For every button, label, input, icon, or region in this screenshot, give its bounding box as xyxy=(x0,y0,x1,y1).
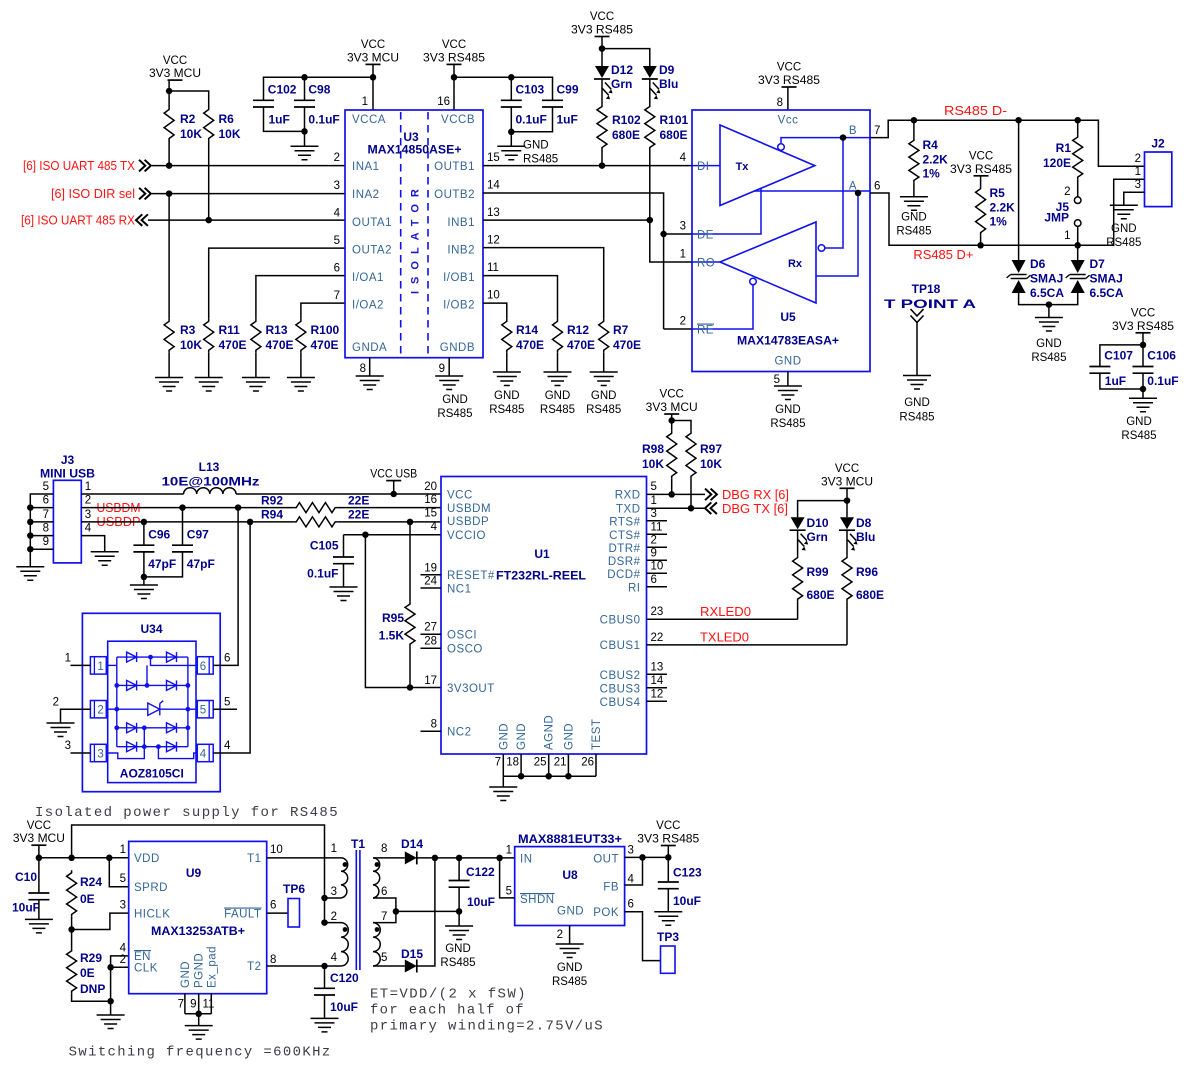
svg-text:VCCIO: VCCIO xyxy=(447,530,486,542)
junction SHDN rail xyxy=(496,855,503,862)
wire J3 shield pin xyxy=(30,548,53,550)
power symbol VCC 3V3 RS485 (U5 pin8) xyxy=(758,62,820,87)
svg-text:VCCB: VCCB xyxy=(441,114,475,126)
wire to D10 xyxy=(798,501,847,518)
svg-text:DNP: DNP xyxy=(80,982,105,996)
diode U34 A1 xyxy=(127,652,137,662)
U34 pin1 inner line xyxy=(106,664,117,666)
wire R13 to gnd xyxy=(255,353,257,378)
svg-text:GND: GND xyxy=(557,906,584,918)
svg-text:CBUS0: CBUS0 xyxy=(600,615,641,627)
junction VCCIO-3V3 tie xyxy=(362,531,369,538)
wire B to D- rail xyxy=(870,120,1145,166)
svg-text:AOZ8105CI: AOZ8105CI xyxy=(120,767,184,781)
svg-text:HICLK: HICLK xyxy=(134,909,170,921)
ground RS485 under TP18 xyxy=(903,376,931,390)
svg-text:Switching frequency =600KHz: Switching frequency =600KHz xyxy=(69,1045,332,1061)
svg-text:GNDA: GNDA xyxy=(352,342,387,354)
svg-text:3V3OUT: 3V3OUT xyxy=(447,683,495,695)
svg-text:ISOLATOR: ISOLATOR xyxy=(410,182,422,294)
wire R4 top xyxy=(913,120,915,138)
svg-text:8: 8 xyxy=(270,954,276,966)
svg-text:R94: R94 xyxy=(261,508,283,522)
diode D15 xyxy=(405,960,417,973)
wire USBDM to R92 xyxy=(81,507,293,509)
svg-text:I/OB1: I/OB1 xyxy=(443,272,475,284)
junction R98-RXD xyxy=(668,491,675,498)
svg-text:0.1uF: 0.1uF xyxy=(516,112,547,126)
svg-text:U9: U9 xyxy=(186,866,202,880)
svg-text:9: 9 xyxy=(43,536,49,548)
junction C106 gnd xyxy=(1140,386,1147,393)
svg-text:8: 8 xyxy=(777,97,783,109)
svg-text:VCC: VCC xyxy=(660,389,684,401)
capacitor C98 xyxy=(294,100,315,107)
wire SPRD jog xyxy=(109,858,128,887)
svg-text:27: 27 xyxy=(424,621,437,633)
wire GNDB to gnd xyxy=(448,358,450,376)
power symbol VCC 3V3 RS485 (U3 pin16) xyxy=(423,39,485,64)
wire CBUS1 net xyxy=(647,644,848,646)
svg-text:CLK: CLK xyxy=(134,963,158,975)
chevron DBG TX xyxy=(705,502,717,514)
ic U9 MAX13253ATB+ box xyxy=(129,841,267,993)
junction R101-INB1-RO xyxy=(647,217,654,224)
svg-text:RE: RE xyxy=(697,325,714,337)
wire R6 bottom to OUTA1 xyxy=(208,141,210,220)
op-amp U5 Rx receiver triangle xyxy=(720,222,816,303)
svg-text:10uF: 10uF xyxy=(467,895,495,909)
svg-text:R11: R11 xyxy=(219,323,241,337)
svg-text:RS485: RS485 xyxy=(586,404,621,416)
resistor R94 xyxy=(294,517,338,527)
wire C122 bottom xyxy=(458,887,460,926)
svg-text:12: 12 xyxy=(651,689,664,701)
svg-text:for each half of: for each half of xyxy=(370,1003,525,1019)
svg-text:7: 7 xyxy=(495,757,501,769)
wire R92 to USBDM pin xyxy=(338,507,441,509)
U34 zener row line xyxy=(117,708,188,710)
ground under C105 xyxy=(330,587,358,601)
svg-text:C103: C103 xyxy=(516,83,545,97)
svg-text:A: A xyxy=(849,181,857,193)
svg-text:1: 1 xyxy=(680,249,686,261)
svg-text:INA1: INA1 xyxy=(352,161,380,173)
node U34 zener left xyxy=(114,707,119,712)
zener diode U34 xyxy=(148,701,164,716)
svg-text:3V3 MCU: 3V3 MCU xyxy=(646,402,698,414)
U34 row B line xyxy=(117,684,188,686)
svg-text:primary winding=2.75V/uS: primary winding=2.75V/uS xyxy=(370,1019,604,1035)
junction R2-INA1 xyxy=(166,162,173,169)
wire xfmr pin2 lead xyxy=(325,922,342,924)
wire I/OA2 net xyxy=(301,303,345,319)
power symbol VCC 3V3 RS485 (LEDs) xyxy=(571,11,633,36)
wire R4 gnd xyxy=(913,183,915,197)
svg-text:1uF: 1uF xyxy=(557,112,578,126)
svg-text:22E: 22E xyxy=(348,493,369,507)
svg-text:4: 4 xyxy=(224,740,231,752)
svg-text:13: 13 xyxy=(487,207,500,219)
junction C97 tap xyxy=(179,504,186,511)
junction R3-INA2 xyxy=(166,190,173,197)
wire U9 gnd drop xyxy=(198,1014,200,1026)
wire R97 to TXD xyxy=(690,479,692,509)
svg-text:10: 10 xyxy=(487,290,500,302)
wire J3 shield bus xyxy=(30,494,53,567)
svg-text:6: 6 xyxy=(200,661,206,673)
svg-text:RS485: RS485 xyxy=(440,957,475,969)
svg-text:C10: C10 xyxy=(15,870,37,884)
wire OUTA1 net xyxy=(148,219,345,221)
wire U1 nc stub xyxy=(421,633,442,635)
junction R1 on D- xyxy=(1074,117,1081,124)
svg-text:L13: L13 xyxy=(199,460,220,474)
svg-text:OUTA1: OUTA1 xyxy=(352,217,392,229)
svg-text:470E: 470E xyxy=(567,338,595,352)
svg-text:20: 20 xyxy=(424,481,437,493)
junction D15 rail xyxy=(432,855,439,862)
wire C102 bottom xyxy=(264,107,305,131)
svg-text:R14: R14 xyxy=(516,323,538,337)
svg-text:1: 1 xyxy=(85,481,91,493)
wire to R97 top xyxy=(672,421,691,431)
wire INA2 net xyxy=(152,193,345,195)
wire R96 to CBUS1 xyxy=(846,602,848,645)
transformer T1 core xyxy=(356,850,360,970)
wire INA2 to R3 xyxy=(168,194,170,319)
svg-text:10K: 10K xyxy=(180,338,202,352)
svg-text:GND: GND xyxy=(775,404,801,416)
svg-text:2.2K: 2.2K xyxy=(990,201,1016,215)
junction C123 tap xyxy=(665,854,672,861)
U5 Rx input bubble xyxy=(818,245,825,252)
capacitor C102 xyxy=(253,100,274,107)
resistor R24 xyxy=(67,870,77,917)
resistor R12 xyxy=(553,319,563,353)
junction J3 shield xyxy=(27,519,34,526)
svg-text:0E: 0E xyxy=(80,892,95,906)
junction xfmr pin3 tap xyxy=(321,895,328,902)
svg-text:R29: R29 xyxy=(80,951,102,965)
diode U34 C1 xyxy=(127,723,137,733)
svg-text:TEST: TEST xyxy=(591,719,603,750)
wire U1 gnd stub xyxy=(548,754,550,776)
svg-text:R1: R1 xyxy=(1056,141,1072,155)
svg-text:2: 2 xyxy=(85,495,91,507)
resistor R98 xyxy=(667,431,677,479)
resistor R11 xyxy=(204,319,214,353)
svg-text:R4: R4 xyxy=(923,138,939,152)
svg-text:470E: 470E xyxy=(266,338,294,352)
svg-text:VCC USB: VCC USB xyxy=(370,469,417,481)
svg-text:11: 11 xyxy=(203,999,215,1011)
ic U5 MAX14783EASA+ box xyxy=(692,110,870,372)
connector J2 box xyxy=(1145,152,1172,207)
svg-text:10K: 10K xyxy=(219,127,241,141)
U34 row C line xyxy=(117,727,188,729)
wire VCC U3 pin1 xyxy=(372,64,374,110)
svg-text:28: 28 xyxy=(424,635,437,647)
wire C97 lead xyxy=(182,508,184,546)
svg-text:VCC: VCC xyxy=(442,39,466,51)
U5 Tx inverting bubble xyxy=(778,144,785,151)
svg-text:1: 1 xyxy=(1064,230,1070,242)
resistor R7 xyxy=(599,319,609,353)
transformer T1 primary winding B xyxy=(341,923,348,966)
wire VCC to R6 xyxy=(169,91,209,107)
wire OUT net xyxy=(625,856,669,858)
diode U34 B1 xyxy=(127,680,137,690)
svg-text:6: 6 xyxy=(381,886,387,898)
wire C120 gnd xyxy=(324,995,326,1018)
svg-text:6: 6 xyxy=(874,181,880,193)
ground RS485 under U8 xyxy=(556,944,584,958)
wire C98 lead top xyxy=(304,77,306,100)
wire R29 bottom xyxy=(72,994,111,1002)
wire C102/C98 top rail xyxy=(264,77,374,100)
resistor R6 xyxy=(204,107,214,141)
chevron ISO DIR sel xyxy=(139,188,151,200)
wire R1 top xyxy=(1077,120,1079,134)
svg-text:DTR#: DTR# xyxy=(608,543,640,555)
wire INB2 to R7 xyxy=(483,248,604,319)
svg-text:Blu: Blu xyxy=(856,530,875,544)
wire D12 to R102 xyxy=(601,79,603,104)
phase dot winding B xyxy=(343,927,348,932)
svg-text:11: 11 xyxy=(487,262,499,274)
svg-text:GND: GND xyxy=(494,390,520,402)
junction R102 on DI xyxy=(599,162,606,169)
diode U34 B2 xyxy=(167,680,177,690)
svg-text:680E: 680E xyxy=(856,588,884,602)
svg-text:T POINT A: T POINT A xyxy=(884,297,977,311)
svg-text:1: 1 xyxy=(651,495,657,507)
capacitor C105 xyxy=(333,557,354,564)
svg-text:R13: R13 xyxy=(266,323,288,337)
svg-text:3: 3 xyxy=(97,749,103,761)
svg-text:Grn: Grn xyxy=(807,530,828,544)
svg-text:RS485: RS485 xyxy=(552,976,587,988)
svg-text:TXLED0: TXLED0 xyxy=(700,630,749,645)
junction VCC-C102 rail xyxy=(370,74,377,81)
power symbol VCC 3V3 RS485 (U8 out) xyxy=(637,820,699,845)
svg-text:C96: C96 xyxy=(148,528,170,542)
U5 B output route xyxy=(781,138,870,144)
svg-text:GND: GND xyxy=(1036,338,1062,350)
capacitor C122 xyxy=(449,881,470,888)
ic U34 inner box xyxy=(108,641,196,782)
svg-text:GND: GND xyxy=(591,390,617,402)
svg-text:RXD: RXD xyxy=(615,490,641,502)
svg-text:19: 19 xyxy=(424,562,437,574)
U34 pin4 inner route xyxy=(158,747,197,759)
junction R98 top xyxy=(668,417,675,424)
svg-text:13: 13 xyxy=(651,662,664,674)
wire C106 bottom xyxy=(1142,373,1144,398)
junction C96-C97 gnd xyxy=(141,574,148,581)
wire ct to C122 gnd xyxy=(396,910,459,912)
junction C102-C98 gnd xyxy=(301,128,308,135)
wire C122 lead xyxy=(458,858,460,881)
svg-text:RI: RI xyxy=(628,582,641,594)
svg-text:2: 2 xyxy=(1135,153,1141,165)
power symbol VCC 3V3 MCU (U3 pin1) xyxy=(347,39,399,64)
svg-text:6: 6 xyxy=(43,495,49,507)
svg-text:2: 2 xyxy=(680,316,686,328)
svg-text:1: 1 xyxy=(120,844,126,856)
svg-text:RS485: RS485 xyxy=(523,154,558,166)
wire J2 pin3 gnd xyxy=(1124,192,1145,205)
svg-text:AGND: AGND xyxy=(544,715,556,750)
svg-text:15: 15 xyxy=(424,507,437,519)
svg-text:RS485: RS485 xyxy=(1106,237,1141,249)
wire R3 to gnd xyxy=(168,353,170,378)
svg-text:Ex_pad: Ex_pad xyxy=(206,946,218,988)
ground under R13 xyxy=(242,378,270,392)
svg-text:2: 2 xyxy=(557,929,563,941)
svg-text:GND: GND xyxy=(516,723,528,750)
svg-text:5: 5 xyxy=(506,886,512,898)
svg-text:C106: C106 xyxy=(1147,349,1176,363)
svg-text:GND: GND xyxy=(1111,223,1137,235)
wire R95 bottom xyxy=(409,647,411,688)
junction EN-CLK gnd xyxy=(107,998,114,1005)
junction TVS gnd xyxy=(1046,301,1053,308)
wire VCC drop R98 xyxy=(671,414,673,431)
svg-text:1uF: 1uF xyxy=(269,112,290,126)
wire U34 pin5 stub xyxy=(213,708,237,710)
svg-text:OUT: OUT xyxy=(593,854,619,866)
capacitor C10 xyxy=(28,893,49,900)
resistor R3 xyxy=(164,319,174,353)
svg-text:22: 22 xyxy=(651,632,664,644)
svg-text:D7: D7 xyxy=(1090,257,1106,271)
resistor R5 xyxy=(976,186,986,235)
wire R100 to gnd xyxy=(300,353,302,378)
svg-text:1%: 1% xyxy=(990,215,1008,229)
wire C96 bottom xyxy=(143,552,145,585)
svg-text:TP18: TP18 xyxy=(912,282,941,296)
svg-text:DCD#: DCD# xyxy=(607,569,640,581)
svg-text:25: 25 xyxy=(534,757,547,769)
wire GNDA to gnd xyxy=(369,358,371,376)
junction D6 on D- xyxy=(1015,117,1022,124)
node U34 C mid xyxy=(142,725,147,730)
svg-text:D10: D10 xyxy=(807,516,829,530)
wire C98 bottom xyxy=(304,107,306,146)
wire INB1 to RO xyxy=(483,219,650,221)
svg-text:3: 3 xyxy=(120,900,126,912)
svg-text:VCC: VCC xyxy=(1131,308,1155,320)
wire D10 to R99 xyxy=(797,530,799,555)
wire to D9 xyxy=(602,49,650,66)
junction VCC node xyxy=(166,88,173,95)
wire D9 to R101 xyxy=(649,79,651,104)
wire R7 gnd xyxy=(603,353,605,372)
resistor R101 xyxy=(645,104,655,150)
svg-text:10: 10 xyxy=(270,844,283,856)
U34 left bus xyxy=(116,657,118,747)
wire xfmr pin5 to D15 xyxy=(373,965,405,967)
svg-text:4: 4 xyxy=(120,943,127,955)
power symbol VCC 3V3 MCU (R98) xyxy=(646,389,698,414)
diode D7 SMAJ6.5CA xyxy=(1066,260,1090,293)
wire U1 nc stub xyxy=(647,586,668,588)
junction VCC USB xyxy=(390,491,397,498)
node U34 B mid xyxy=(145,683,150,688)
wire U9 T1 to xfmr pin1 xyxy=(267,857,341,859)
wire D14 to IN rail xyxy=(417,857,515,859)
svg-text:R100: R100 xyxy=(311,323,340,337)
wire D15 to rail xyxy=(417,858,435,966)
svg-text:U5: U5 xyxy=(780,310,796,324)
resistor R13 xyxy=(251,319,261,353)
ground RS485 under R12 xyxy=(544,372,572,386)
wire U34 pin1 stub xyxy=(71,664,91,666)
wire U1 nc stub xyxy=(647,673,668,675)
resistor R100 xyxy=(296,319,306,353)
svg-text:U1: U1 xyxy=(534,547,550,561)
svg-text:GND: GND xyxy=(498,723,510,750)
svg-text:RS485 D+: RS485 D+ xyxy=(913,247,973,262)
svg-text:1: 1 xyxy=(331,843,337,855)
node U34 pin3 join xyxy=(142,744,147,749)
resistor R99 xyxy=(793,555,803,602)
svg-text:8: 8 xyxy=(431,718,437,730)
wire U1 nc stub xyxy=(421,647,442,649)
wire R24 bottom xyxy=(71,917,73,949)
svg-text:JMP: JMP xyxy=(1044,211,1069,225)
wire J3 pin4 gnd xyxy=(81,536,104,552)
node U34 zener right xyxy=(186,707,191,712)
svg-text:4: 4 xyxy=(628,874,635,886)
svg-text:GND: GND xyxy=(1126,416,1152,428)
wire RXD net xyxy=(647,493,706,495)
svg-text:8: 8 xyxy=(360,363,366,375)
wire C103 lead top xyxy=(510,77,512,100)
wire D8 to R96 xyxy=(846,530,848,555)
junction C120 tap xyxy=(321,963,328,970)
svg-text:3V3 RS485: 3V3 RS485 xyxy=(637,834,699,846)
svg-text:DSR#: DSR# xyxy=(608,556,641,568)
wire VCC drop U9 xyxy=(38,845,40,893)
svg-text:23: 23 xyxy=(651,606,664,618)
svg-text:VCCA: VCCA xyxy=(352,114,386,126)
wire HICLK jog xyxy=(72,913,129,929)
wire U34 pin6 to USBDM xyxy=(213,508,238,666)
svg-text:9: 9 xyxy=(651,548,657,560)
junction xfmr pin2 tap xyxy=(321,919,328,926)
wire VCCIO net xyxy=(344,534,442,536)
wire USBDP to R94 xyxy=(81,521,293,523)
wire U1 nc stub xyxy=(647,546,668,548)
svg-text:T2: T2 xyxy=(247,961,261,973)
junction R6-OUTA1 xyxy=(205,217,212,224)
svg-text:3: 3 xyxy=(334,180,340,192)
U5 A output route xyxy=(754,191,870,276)
svg-text:RS485: RS485 xyxy=(489,404,524,416)
chevron ISO UART 485 TX xyxy=(139,160,151,172)
isolator dashed line left xyxy=(400,112,402,356)
svg-text:14: 14 xyxy=(651,675,664,687)
svg-text:6: 6 xyxy=(334,263,340,275)
wire CBUS0 net xyxy=(647,618,798,620)
svg-text:7: 7 xyxy=(874,125,880,137)
wire DE stub xyxy=(664,233,692,235)
svg-text:RO: RO xyxy=(697,258,715,270)
wire C105 lead xyxy=(343,535,345,557)
